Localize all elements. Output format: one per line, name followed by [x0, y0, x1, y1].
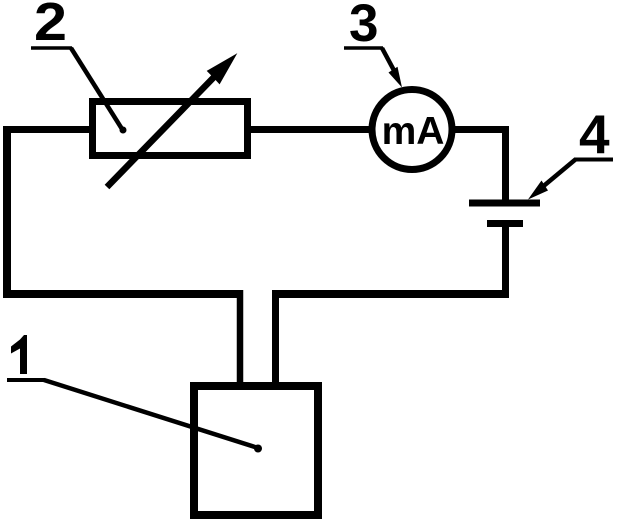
wire meter to right corner: [452, 126, 509, 133]
milliammeter 3 circle: [372, 90, 452, 170]
battery 4 long plate: [469, 200, 540, 207]
rheostat 2 body: [93, 102, 248, 156]
battery 4 short plate: [487, 220, 523, 227]
wire right vertical lower: [502, 224, 509, 299]
label 1 digit: [11, 335, 27, 374]
label 3 leader line: [344, 48, 397, 76]
label 4 arrowhead: [528, 181, 548, 200]
wire bottom right horizontal: [272, 290, 509, 298]
electrolytic cell 1 box: [194, 386, 318, 515]
rheostat 2 arrow shaft: [107, 75, 216, 187]
wire left electrode lead: [237, 290, 244, 388]
wire bottom left horizontal: [3, 290, 243, 298]
label 3 arrowhead: [389, 67, 403, 88]
label 2 leader line: [31, 48, 122, 129]
wire rheostat to meter: [248, 126, 372, 133]
svg-text:2: 2: [34, 0, 67, 52]
label 3 digit: [349, 0, 378, 53]
label 4 leader line: [540, 159, 613, 189]
wire top left horizontal: [3, 126, 92, 133]
milliammeter 3 text mA: [382, 110, 445, 153]
svg-text:mA: mA: [382, 110, 445, 153]
svg-text:4: 4: [579, 103, 610, 165]
label 1 leader line: [7, 380, 258, 448]
wire left vertical: [3, 126, 11, 298]
wire right vertical upper: [502, 126, 509, 203]
rheostat 2 arrowhead: [208, 55, 237, 84]
label 2 leader tip: [120, 127, 127, 134]
wire right electrode lead: [272, 290, 279, 388]
label 4 digit: [579, 103, 610, 165]
label 2 digit: [34, 0, 67, 52]
label 1 leader tip: [254, 445, 262, 453]
svg-text:3: 3: [349, 0, 378, 53]
